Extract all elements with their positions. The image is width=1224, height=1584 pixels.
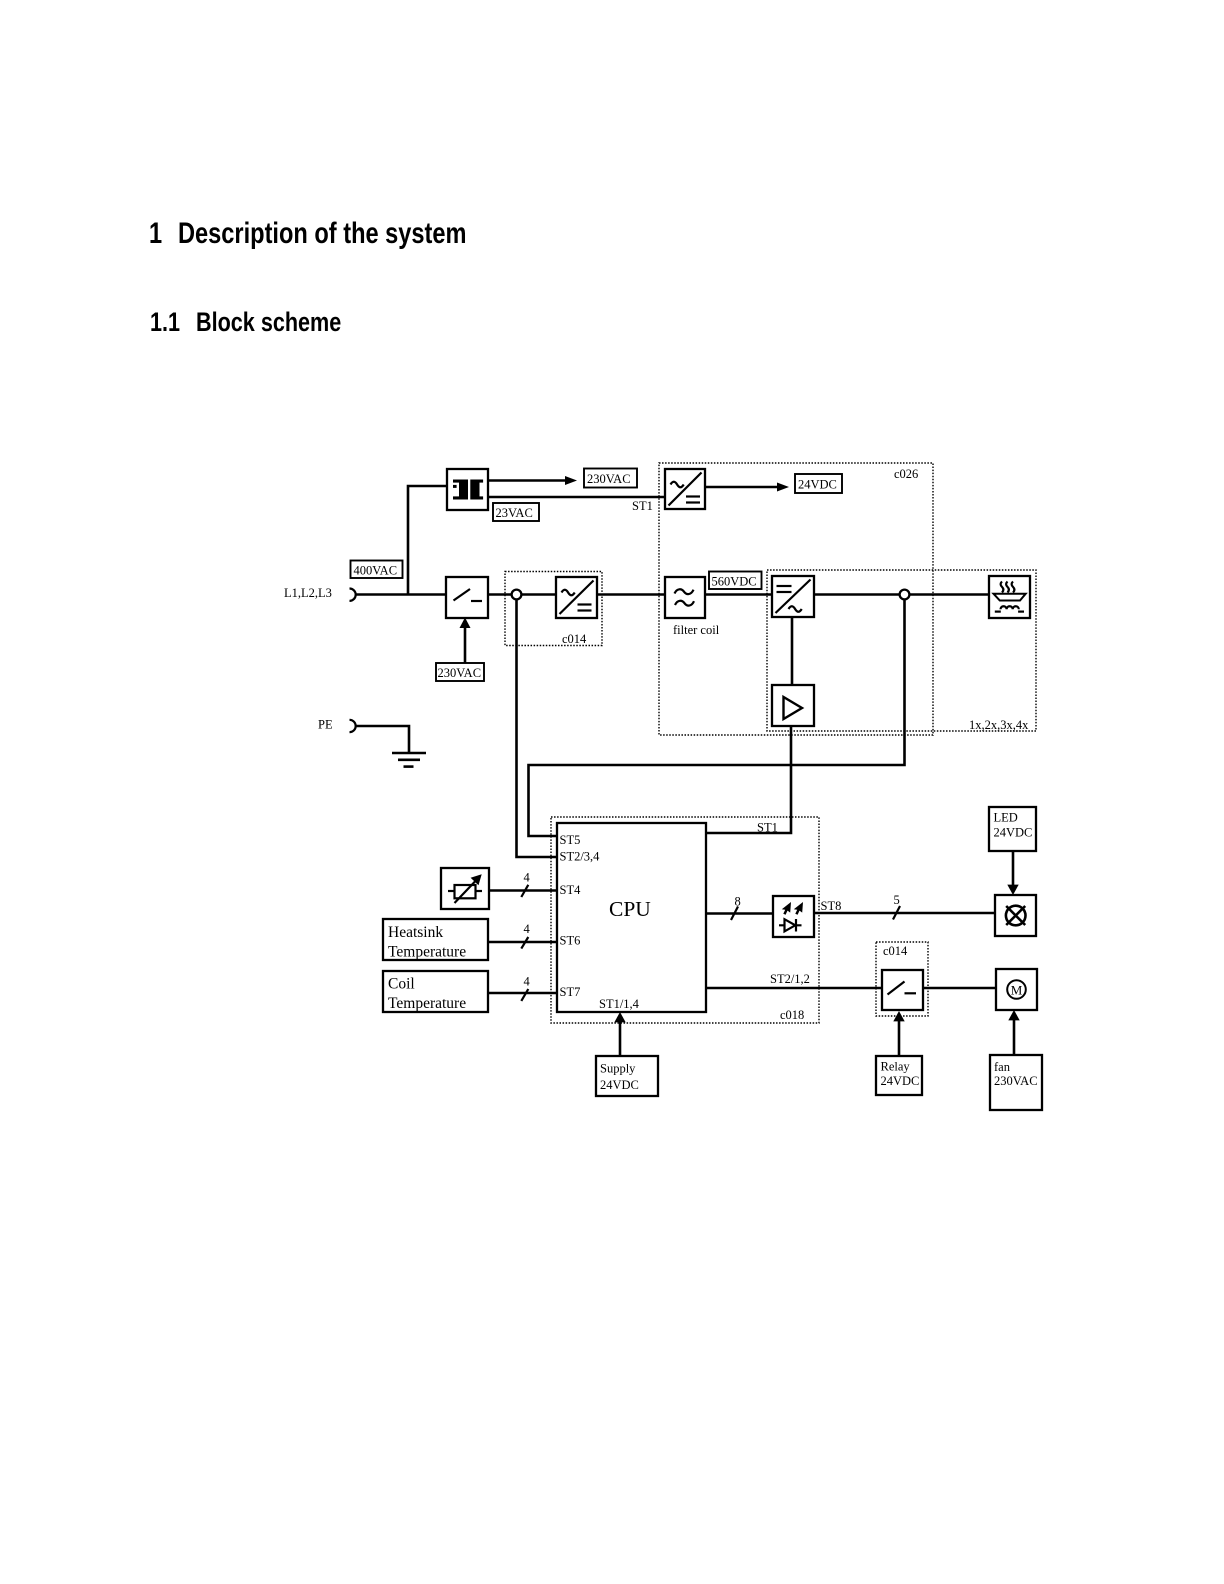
- relay 24VDC source box: [876, 1056, 922, 1095]
- thermistor RT1 (setpoint): [441, 868, 489, 909]
- svg-text:24VDC: 24VDC: [798, 478, 837, 492]
- svg-text:Temperature: Temperature: [388, 944, 466, 961]
- relay K1: [882, 970, 923, 1010]
- wire PE input: [356, 726, 409, 753]
- module 1x,2x,3x,4x dashed enclosure: [767, 570, 1036, 731]
- bus slash ST6: [521, 937, 528, 949]
- coil temperature sensor box: [383, 971, 488, 1012]
- label L1,L2,L3: [284, 586, 332, 600]
- CPU port label ST4: [560, 883, 582, 897]
- bus slash ST4: [521, 885, 528, 897]
- module c014 label (rectifier): [562, 632, 587, 646]
- module c018 label: [780, 1008, 804, 1022]
- wire converter output 24VDC: [705, 486, 778, 489]
- module c014 label (relay): [883, 944, 908, 958]
- svg-text:filter coil: filter coil: [673, 623, 720, 637]
- svg-text:Relay: Relay: [881, 1060, 911, 1074]
- main switch S1: [446, 577, 488, 618]
- node A junction circle: [512, 590, 522, 600]
- svg-text:LED: LED: [994, 811, 1018, 825]
- bus width 4 label ST7: [524, 975, 531, 989]
- wire relay to fan motor: [923, 987, 996, 990]
- bus slash 5: [893, 906, 900, 920]
- CPU port label ST7: [560, 985, 581, 999]
- arrowhead switch control: [460, 618, 471, 629]
- wire rectifier to filter coil: [597, 593, 665, 596]
- connector L1,L2,L3: [350, 589, 356, 601]
- wire CPU to optocoupler: [706, 912, 773, 915]
- heating element R1: [989, 576, 1030, 618]
- svg-text:4: 4: [524, 871, 531, 885]
- svg-text:4: 4: [524, 922, 531, 936]
- svg-text:c018: c018: [780, 1008, 804, 1022]
- svg-text:Temperature: Temperature: [388, 995, 466, 1012]
- svg-text:c014: c014: [883, 944, 908, 958]
- label PE: [318, 718, 333, 732]
- CPU port label ST1/1,4: [599, 997, 640, 1011]
- label box 230VAC (transformer out): [584, 469, 637, 488]
- label box 560VDC: [709, 572, 762, 590]
- filter coil L1: [665, 577, 705, 618]
- lamp H1 (crossed circle): [995, 895, 1036, 936]
- svg-text:ST5: ST5: [560, 833, 581, 847]
- module c026 label: [894, 467, 918, 481]
- wire supply 24VDC arrow to CPU ST1/1,4: [619, 1021, 622, 1056]
- module 1x,2x,3x,4x label: [969, 718, 1029, 732]
- ground symbol: [392, 753, 426, 767]
- svg-text:230VAC: 230VAC: [994, 1074, 1038, 1088]
- svg-text:c026: c026: [894, 467, 918, 481]
- svg-text:PE: PE: [318, 718, 333, 732]
- gate driver amplifier U4: [772, 685, 814, 726]
- svg-text:ST1: ST1: [632, 499, 653, 513]
- inverter U3 (DC/AC): [772, 576, 814, 617]
- arrowhead CPU supply: [614, 1012, 625, 1022]
- wire relay 24VDC supply arrow: [898, 1020, 901, 1055]
- arrowhead relay supply: [893, 1011, 904, 1021]
- wire inverter to gate driver: [791, 617, 794, 685]
- svg-text:230VAC: 230VAC: [438, 666, 482, 680]
- module c018 dashed enclosure (CPU board): [551, 817, 819, 1023]
- label box 400VAC: [351, 561, 403, 579]
- arrowhead fan supply: [1008, 1010, 1019, 1020]
- svg-text:ST2/3,4: ST2/3,4: [560, 850, 601, 864]
- label ST8: [821, 899, 842, 913]
- svg-text:M: M: [1011, 983, 1023, 998]
- wire heatsink sensor to CPU ST6: [488, 941, 557, 944]
- CPU port label ST6: [560, 934, 581, 948]
- fan motor M1: [996, 969, 1037, 1010]
- svg-text:230VAC: 230VAC: [587, 472, 631, 486]
- svg-text:24VDC: 24VDC: [600, 1078, 639, 1092]
- svg-text:23VAC: 23VAC: [496, 506, 533, 520]
- wire filter coil to inverter: [705, 593, 772, 596]
- wire node A down to CPU ST2/3,4: [517, 600, 558, 857]
- arrowhead lamp supply: [1007, 885, 1018, 895]
- wire inverter to heating element: [814, 593, 989, 596]
- wire thermistor to CPU ST4: [482, 889, 557, 892]
- svg-text:ST4: ST4: [560, 883, 582, 897]
- label box 23VAC: [493, 503, 539, 521]
- svg-text:CPU: CPU: [609, 897, 651, 921]
- bus width 5 label: [894, 893, 900, 907]
- svg-text:8: 8: [735, 895, 741, 909]
- label ST1 (CPU to gate driver): [757, 821, 778, 835]
- AC/DC converter U1 (24VDC supply): [665, 469, 705, 509]
- wire transformer bottom output 23VAC to ST1 converter: [488, 496, 665, 499]
- svg-text:400VAC: 400VAC: [354, 564, 398, 578]
- svg-text:ST1/1,4: ST1/1,4: [599, 997, 640, 1011]
- svg-text:ST7: ST7: [560, 985, 581, 999]
- svg-text:560VDC: 560VDC: [712, 575, 757, 589]
- supply 24VDC source box: [596, 1056, 658, 1096]
- svg-text:4: 4: [524, 975, 531, 989]
- svg-text:ST6: ST6: [560, 934, 581, 948]
- CPU U5: [557, 823, 706, 1012]
- svg-text:24VDC: 24VDC: [994, 826, 1033, 840]
- bus width 8 label: [735, 895, 741, 909]
- wire LED supply arrow to lamp: [1012, 851, 1015, 886]
- wire fan 230VAC supply arrow: [1013, 1019, 1016, 1055]
- label box 24VDC: [795, 474, 842, 493]
- bus width 4 label ST4: [524, 871, 531, 885]
- module c014 dashed enclosure (rectifier): [505, 572, 602, 646]
- svg-text:Supply: Supply: [600, 1062, 636, 1076]
- svg-text:5: 5: [894, 893, 900, 907]
- wire CPU ST2/1,2 to relay: [706, 987, 882, 990]
- svg-text:ST2/1,2: ST2/1,2: [770, 972, 810, 986]
- wire transformer top output 230VAC: [488, 479, 566, 482]
- heatsink temperature sensor box: [383, 919, 488, 961]
- bus width 4 label ST6: [524, 922, 531, 936]
- connector PE: [350, 720, 356, 732]
- module c026 dashed enclosure: [659, 463, 933, 735]
- wire node B down and left to CPU ST5: [529, 600, 905, 836]
- wire L1,L2,L3 400VAC main input: [356, 593, 446, 596]
- arrowhead 230VAC: [565, 476, 577, 485]
- wire coil sensor to CPU ST7: [488, 992, 557, 995]
- LED 24VDC source box: [989, 807, 1036, 851]
- label filter coil: [673, 623, 720, 637]
- svg-text:Heatsink: Heatsink: [388, 924, 443, 941]
- optocoupler U6: [773, 896, 814, 937]
- fan 230VAC source box: [990, 1055, 1042, 1110]
- rectifier U2 (AC/DC in c014): [556, 577, 597, 618]
- svg-text:L1,L2,L3: L1,L2,L3: [284, 586, 332, 600]
- label box 230VAC (switch control): [436, 663, 484, 681]
- bus slash ST7: [521, 989, 528, 1001]
- svg-text:c014: c014: [562, 632, 587, 646]
- bus slash 8: [731, 907, 738, 921]
- svg-text:Coil: Coil: [388, 976, 415, 993]
- wire branch up to transformer: [408, 486, 447, 595]
- wire 230VAC control arrow to switch: [464, 627, 467, 663]
- svg-text:1x,2x,3x,4x: 1x,2x,3x,4x: [969, 718, 1029, 732]
- transformer T1: [447, 469, 488, 510]
- wire gate driver down to CPU ST1: [706, 726, 791, 833]
- CPU port label ST2/3,4: [560, 850, 601, 864]
- wire switch to rectifier: [488, 593, 556, 596]
- svg-text:fan: fan: [994, 1060, 1011, 1074]
- arrowhead 24VDC: [777, 483, 789, 492]
- svg-text:ST8: ST8: [821, 899, 842, 913]
- wire optocoupler to lamp ST8: [814, 912, 995, 915]
- node B junction circle: [900, 590, 910, 600]
- CPU port label ST5: [560, 833, 581, 847]
- svg-text:ST1: ST1: [757, 821, 778, 835]
- label ST1 (converter input): [632, 499, 653, 513]
- module c014 dashed enclosure (relay): [876, 942, 928, 1016]
- svg-text:24VDC: 24VDC: [881, 1074, 920, 1088]
- label ST2/1,2: [770, 972, 810, 986]
